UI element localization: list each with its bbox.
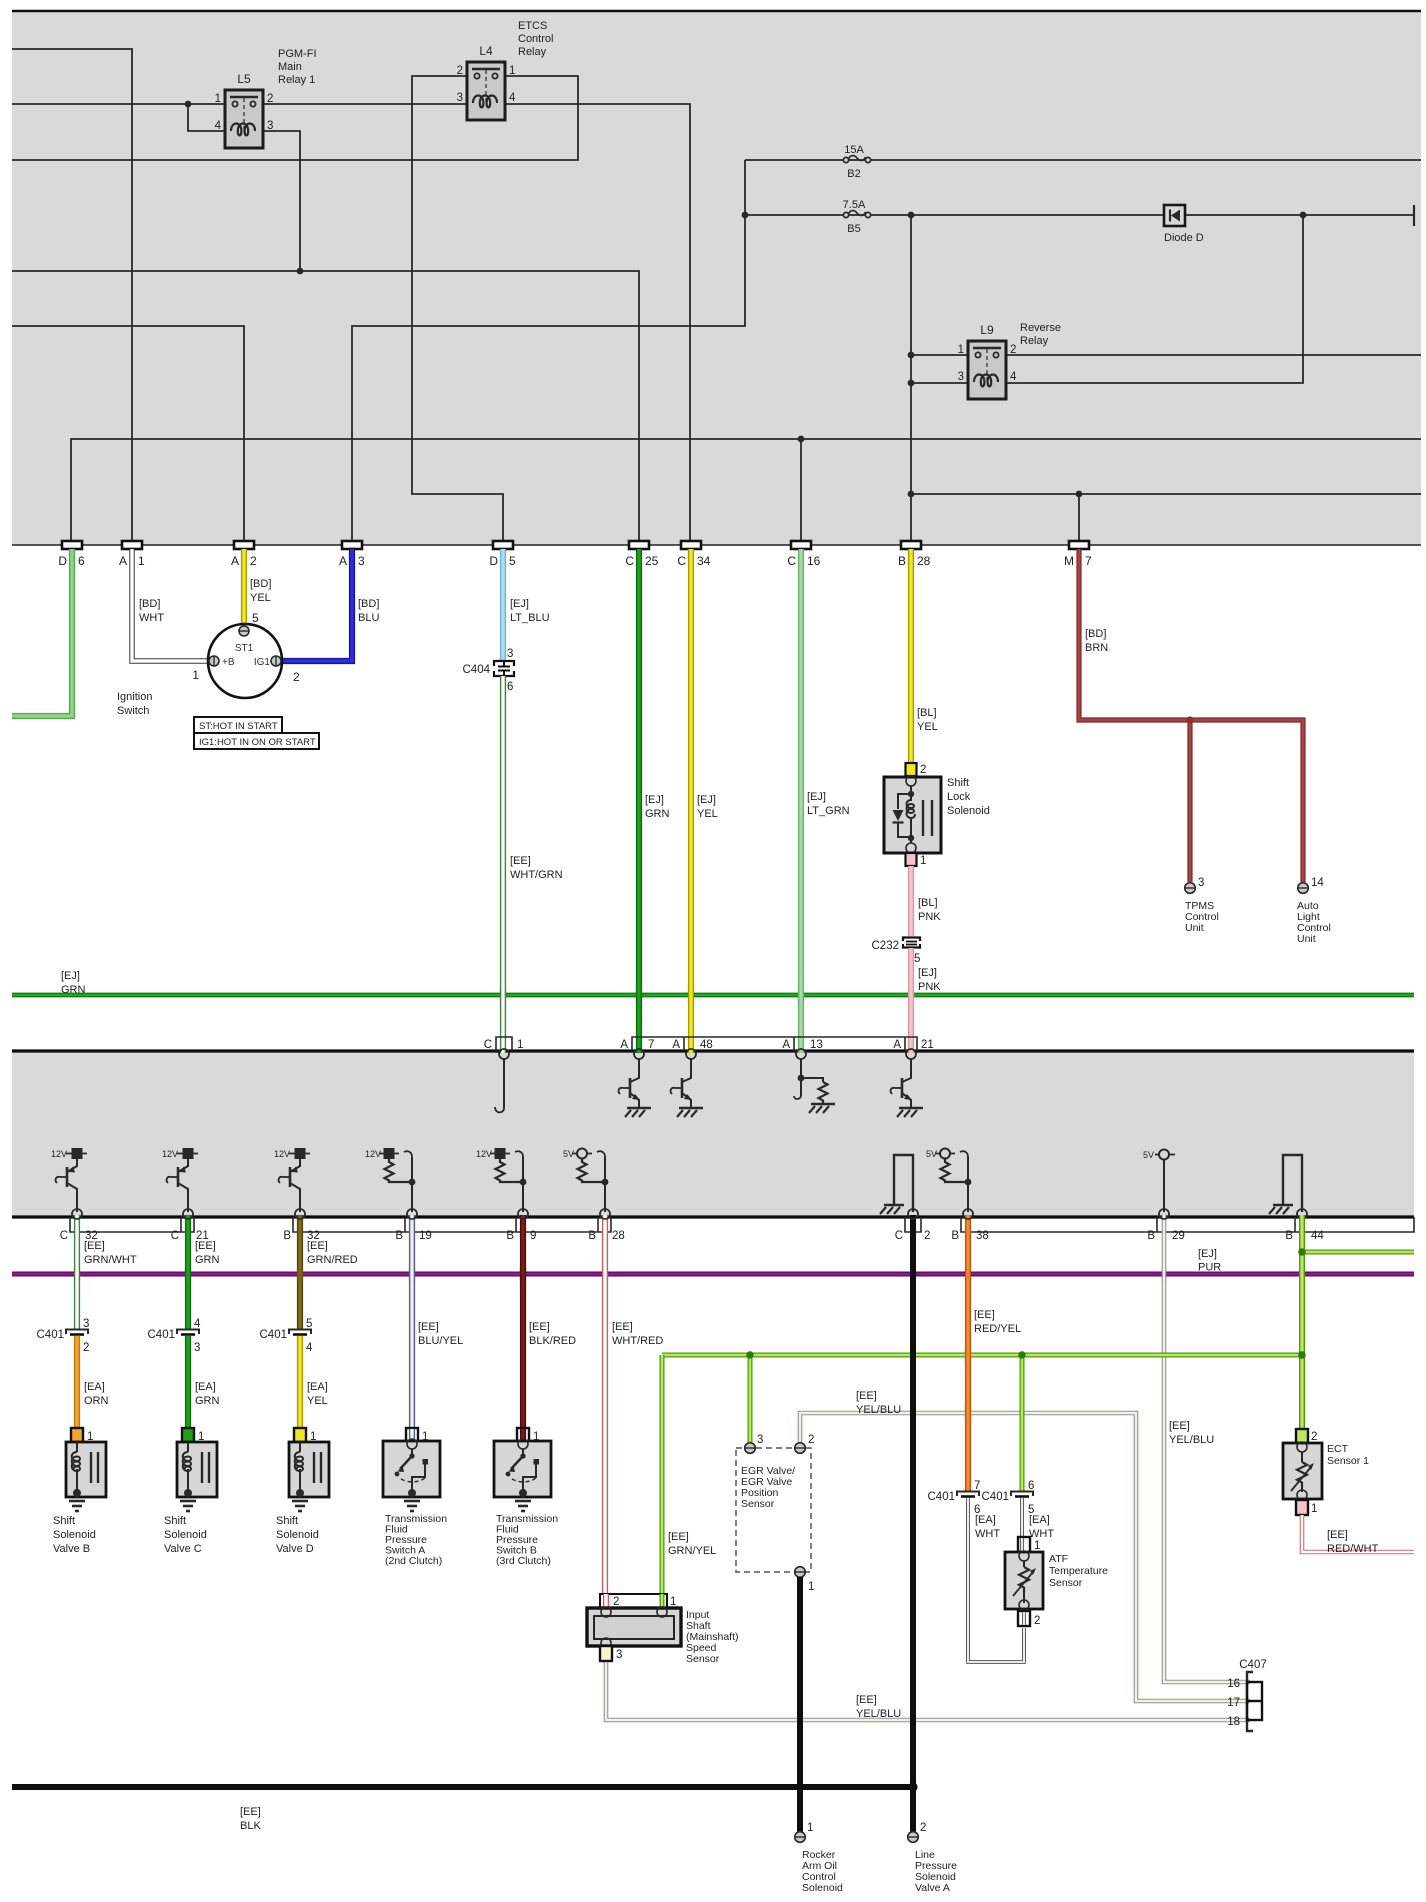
wire WHT/GRN from C404 to C1 bbox=[500, 676, 506, 1053]
svg-text:RED/YEL: RED/YEL bbox=[974, 1323, 1021, 1335]
svg-text:Shift: Shift bbox=[276, 1515, 298, 1527]
label Auto Light Control Unit bbox=[1297, 900, 1331, 945]
svg-text:C401: C401 bbox=[148, 1329, 176, 1341]
svg-text:[EE]: [EE] bbox=[612, 1321, 633, 1333]
svg-text:ECT: ECT bbox=[1327, 1443, 1349, 1455]
svg-text:3: 3 bbox=[1198, 877, 1204, 889]
wire LT_GRN crossing green bus bbox=[798, 988, 804, 1002]
label [EE] YEL/BLU (B29 wire) bbox=[1169, 1420, 1214, 1446]
junction dot lime 1022,1355 bbox=[1018, 1351, 1026, 1359]
pin circle overlay at x=188 bottom of TCM bbox=[183, 1209, 193, 1219]
wire BLU from A3 to IG1 bbox=[281, 549, 352, 661]
ground symbol at C2 bbox=[880, 1155, 913, 1214]
svg-text:A: A bbox=[119, 554, 127, 568]
ignition switch body bbox=[208, 624, 282, 698]
input shaft speed sensor pin row bbox=[600, 1594, 676, 1608]
svg-text:GRN/WHT: GRN/WHT bbox=[84, 1254, 137, 1266]
pin circle overlay at x=523 bottom of TCM bbox=[518, 1209, 528, 1219]
connector C25 (PCM) bbox=[625, 541, 658, 568]
wire stub below C1 with pigtail bbox=[503, 1059, 505, 1108]
svg-text:[BD]: [BD] bbox=[1085, 628, 1106, 640]
svg-text:1: 1 bbox=[920, 855, 926, 867]
pin circle at x=77 bottom of TCM bbox=[72, 1209, 82, 1219]
junction dot lime 750,1355 bbox=[746, 1351, 754, 1359]
wire WHT from C401-6 loop to ATF pin 2 bbox=[968, 1498, 1024, 1662]
wire y160 fuse B2 branch bbox=[745, 159, 1421, 161]
svg-text:GRN: GRN bbox=[645, 808, 670, 820]
svg-text:3: 3 bbox=[507, 648, 513, 660]
svg-text:L9: L9 bbox=[980, 323, 994, 337]
connector C401 pins 7/6 bbox=[928, 1480, 981, 1516]
svg-text:YEL: YEL bbox=[917, 721, 938, 733]
label [EE] BLK/RED bbox=[529, 1321, 576, 1347]
svg-text:[EJ]: [EJ] bbox=[510, 598, 529, 610]
svg-text:A: A bbox=[893, 1039, 901, 1051]
svg-text:ORN: ORN bbox=[84, 1395, 109, 1407]
svg-text:3: 3 bbox=[757, 1434, 763, 1446]
wire GRN/YEL down to input sensor pin 1 bbox=[660, 1355, 665, 1596]
svg-text:Diode D: Diode D bbox=[1164, 232, 1204, 244]
junction dot 745,215 bbox=[742, 212, 749, 219]
wire y160 to L4 pin1 bbox=[12, 76, 578, 160]
svg-text:2: 2 bbox=[808, 1434, 814, 1446]
svg-text:IG1: IG1 bbox=[254, 657, 271, 668]
svg-text:C: C bbox=[625, 554, 634, 568]
label [EJ] GRN (horizontal bus) bbox=[61, 970, 86, 996]
pin circle overlay at x=605 bottom of TCM bbox=[600, 1209, 610, 1219]
label [EE] BLK bbox=[240, 1806, 261, 1832]
svg-text:13: 13 bbox=[810, 1039, 823, 1051]
svg-text:[EE]: [EE] bbox=[195, 1240, 216, 1252]
connector M7 (PCM) bbox=[1064, 541, 1092, 568]
label ETCS Control Relay bbox=[518, 20, 553, 58]
wire L4 pin2 down to D5 bbox=[412, 76, 503, 541]
svg-text:15A: 15A bbox=[844, 144, 864, 156]
svg-text:7: 7 bbox=[1085, 554, 1092, 568]
wire B5 feed down to B28 bbox=[910, 215, 912, 541]
connector C1 pin circle bbox=[499, 1049, 509, 1059]
svg-text:Valve B: Valve B bbox=[53, 1543, 90, 1555]
svg-text:C232: C232 bbox=[872, 940, 900, 952]
svg-text:LT_BLU: LT_BLU bbox=[510, 612, 550, 624]
svg-text:Relay: Relay bbox=[1020, 335, 1049, 347]
svg-text:1: 1 bbox=[808, 1581, 814, 1593]
wire BRN branch to TPMS bbox=[1187, 720, 1192, 882]
svg-text:C: C bbox=[895, 1230, 903, 1242]
wire LT_BLU from D5 to C404 bbox=[500, 549, 506, 661]
svg-text:[EE]: [EE] bbox=[856, 1694, 877, 1706]
shift lock solenoid pin 1 box bbox=[906, 853, 927, 867]
wire BLK ground bus bbox=[12, 1784, 913, 1790]
svg-text:Switch: Switch bbox=[117, 705, 149, 717]
svg-text:[EJ]: [EJ] bbox=[1198, 1248, 1217, 1260]
svg-text:3: 3 bbox=[267, 120, 273, 132]
svg-text:YEL: YEL bbox=[307, 1395, 328, 1407]
wire WHT/RED stub into input sensor pin 2 bbox=[603, 1594, 609, 1608]
svg-text:1: 1 bbox=[517, 1039, 523, 1051]
terminal 3 TPMS bbox=[1185, 877, 1205, 893]
svg-text:[EA]: [EA] bbox=[1029, 1514, 1050, 1526]
svg-text:M: M bbox=[1064, 554, 1074, 568]
svg-text:ST:HOT IN START: ST:HOT IN START bbox=[199, 721, 278, 732]
wire fuse feed down to A3 bbox=[352, 160, 745, 541]
pin circle at x=300 bottom of TCM bbox=[295, 1209, 305, 1219]
svg-text:WHT/GRN: WHT/GRN bbox=[510, 869, 563, 881]
wire BLK redrawn over lower YEL/BLU crossing bbox=[910, 1712, 916, 1728]
wire M7 drop from y494 bus bbox=[1078, 494, 1080, 541]
label Rocker Arm Oil Control Solenoid bbox=[802, 1849, 843, 1894]
connector A1 (PCM) bbox=[119, 541, 145, 568]
ATF temperature sensor body bbox=[1005, 1551, 1043, 1610]
svg-text:[EE]: [EE] bbox=[240, 1806, 261, 1818]
svg-text:1: 1 bbox=[958, 344, 964, 356]
label [EA] WHT (right) bbox=[1029, 1514, 1054, 1540]
svg-text:YEL: YEL bbox=[250, 592, 271, 604]
svg-text:L5: L5 bbox=[237, 72, 251, 86]
junction dot lime 1302,1355 bbox=[1298, 1351, 1306, 1359]
wire GRN/YEL down to C401 pin 6 bbox=[1020, 1355, 1025, 1491]
label [EA] GRN bbox=[195, 1381, 220, 1407]
5V pull-up resistor at B28 bbox=[563, 1149, 608, 1213]
svg-text:7: 7 bbox=[648, 1039, 654, 1051]
fuse B2 15A bbox=[843, 144, 870, 180]
12V driver transistor at C32 bbox=[51, 1148, 87, 1212]
wire L5 pin1 junction to pin 4 bbox=[188, 104, 225, 131]
svg-text:7.5A: 7.5A bbox=[843, 199, 866, 211]
label [EJ] PUR bbox=[1198, 1248, 1221, 1274]
svg-text:2: 2 bbox=[920, 1822, 926, 1834]
junction dot 911,215 bbox=[908, 212, 915, 219]
junction dot at 300,271 bbox=[297, 268, 304, 275]
svg-text:6: 6 bbox=[1028, 1480, 1034, 1492]
EGR valve dashed box bbox=[736, 1448, 811, 1572]
connector strip B38-B29-B44 bbox=[951, 1217, 1414, 1242]
svg-text:Unit: Unit bbox=[1185, 922, 1204, 934]
wire GRN/YEL stub into input sensor pin 1 bbox=[660, 1594, 665, 1608]
label [BL] PNK bbox=[918, 897, 941, 923]
wire to reverse relay pin 3 bbox=[911, 382, 968, 384]
wire WHT from C401-5 to ATF pin 1 bbox=[1020, 1498, 1024, 1538]
label [EA] WHT (left) bbox=[975, 1514, 1000, 1540]
wire into L5 pin 1 bbox=[12, 103, 225, 105]
wire PNK crossing green bus bbox=[908, 988, 914, 1002]
terminal 2 Line Pressure Solenoid Valve A bbox=[908, 1822, 927, 1842]
connector strip B32-B19-B9-B28 bbox=[283, 1217, 624, 1242]
connector A13 pin circle bbox=[796, 1049, 806, 1059]
svg-text:12V: 12V bbox=[476, 1149, 492, 1159]
relay L5 (PGM-FI Main Relay 1) bbox=[215, 72, 274, 148]
junction dot lime 1302,1252 bbox=[1298, 1248, 1306, 1256]
label [EJ] LT_GRN bbox=[807, 791, 850, 817]
wire YEL from C34 to A48 bbox=[688, 549, 694, 1053]
svg-text:+B: +B bbox=[222, 657, 235, 668]
connector A7 pin circle bbox=[634, 1049, 644, 1059]
svg-text:Shift: Shift bbox=[164, 1515, 186, 1527]
svg-text:[EA]: [EA] bbox=[307, 1381, 328, 1393]
svg-text:2: 2 bbox=[250, 554, 257, 568]
pin circle overlay at x=913 bottom of TCM bbox=[908, 1209, 918, 1219]
svg-text:BLU: BLU bbox=[358, 612, 379, 624]
svg-text:C401: C401 bbox=[982, 1491, 1010, 1503]
shift lock solenoid pin 2 box bbox=[906, 763, 927, 776]
svg-text:17: 17 bbox=[1227, 1697, 1240, 1709]
wire BLK redrawn over lime bus crossing bbox=[910, 1347, 916, 1363]
shift lock solenoid body bbox=[884, 776, 941, 853]
relay L4 (ETCS Control Relay) bbox=[457, 44, 516, 120]
svg-text:2: 2 bbox=[1034, 1615, 1040, 1627]
wire GRN from C25 to A7 bbox=[636, 549, 642, 1053]
svg-text:[EJ]: [EJ] bbox=[61, 970, 80, 982]
connector C1 (TCM) box bbox=[484, 1037, 524, 1051]
wire YEL C34 crossing green bus bbox=[688, 988, 694, 1002]
ground symbol at B44 bbox=[1269, 1155, 1302, 1214]
svg-text:PNK: PNK bbox=[918, 981, 941, 993]
pin circle at x=412 bottom of TCM bbox=[407, 1209, 417, 1219]
svg-text:Shift: Shift bbox=[947, 777, 969, 789]
svg-text:A: A bbox=[672, 1039, 680, 1051]
svg-text:2: 2 bbox=[1010, 344, 1016, 356]
transistor driver at A21 bbox=[891, 1059, 923, 1117]
wire GRN C25 crossing green bus bbox=[636, 988, 642, 1002]
svg-text:WHT: WHT bbox=[139, 612, 164, 624]
svg-text:ETCS: ETCS bbox=[518, 20, 547, 32]
TCM internal area (second gray box) bbox=[12, 1051, 1414, 1217]
svg-text:C: C bbox=[787, 554, 796, 568]
svg-text:6: 6 bbox=[78, 554, 85, 568]
label [EE] GRN (C21 wire) bbox=[195, 1240, 220, 1266]
wire y326 to A2 bbox=[12, 326, 244, 541]
svg-text:C401: C401 bbox=[37, 1329, 65, 1341]
wire YEL from B28 to shift lock solenoid bbox=[908, 549, 914, 763]
wire WHT/GRN crossing green bus bbox=[500, 988, 506, 1002]
wire BLU/YEL from B19 to switch A bbox=[409, 1215, 415, 1440]
svg-text:YEL/BLU: YEL/BLU bbox=[856, 1708, 901, 1720]
svg-text:19: 19 bbox=[419, 1230, 432, 1242]
svg-text:LT_GRN: LT_GRN bbox=[807, 805, 850, 817]
svg-text:28: 28 bbox=[612, 1230, 625, 1242]
svg-text:C: C bbox=[60, 1230, 68, 1242]
input shaft speed sensor body bbox=[587, 1607, 681, 1648]
wire crossing purple at x=188 bbox=[185, 1268, 191, 1281]
connector C401 pins 5/4 bbox=[260, 1318, 314, 1354]
svg-text:1: 1 bbox=[509, 65, 515, 77]
terminal IG1 bbox=[254, 656, 281, 668]
PCM internal area (top gray box) bbox=[12, 11, 1421, 545]
svg-text:A: A bbox=[620, 1039, 628, 1051]
12V driver transistor at C21 bbox=[162, 1148, 198, 1212]
svg-text:3: 3 bbox=[194, 1342, 200, 1354]
svg-text:D: D bbox=[489, 554, 498, 568]
wire C16 drop from y439 bus bbox=[800, 439, 802, 541]
svg-text:Solenoid: Solenoid bbox=[53, 1529, 96, 1541]
svg-text:18: 18 bbox=[1227, 1716, 1240, 1728]
svg-text:12V: 12V bbox=[51, 1149, 67, 1159]
label [EJ] GRN (C25 wire) bbox=[645, 794, 670, 820]
svg-text:BLK: BLK bbox=[240, 1820, 261, 1832]
label [EJ] YEL (C34 wire) bbox=[697, 794, 718, 820]
connector C401 pins 6/5 bbox=[982, 1480, 1035, 1516]
svg-text:Shift: Shift bbox=[53, 1515, 75, 1527]
wire GRN horizontal bus bbox=[12, 993, 1414, 998]
wire BLK crossing purple bbox=[910, 1268, 916, 1281]
svg-text:PNK: PNK bbox=[918, 911, 941, 923]
svg-text:12V: 12V bbox=[365, 1149, 381, 1159]
svg-text:Relay: Relay bbox=[518, 46, 547, 58]
svg-text:14: 14 bbox=[1311, 877, 1324, 889]
wire BLK from EGR pin 1 down bbox=[797, 1577, 803, 1832]
svg-text:L4: L4 bbox=[479, 44, 493, 58]
connector C16 (PCM) bbox=[787, 541, 820, 568]
svg-text:GRN: GRN bbox=[195, 1254, 220, 1266]
transistor driver at A48 bbox=[671, 1059, 703, 1117]
wire RED/YEL redrawn over lime bus crossing bbox=[965, 1347, 971, 1363]
wire ORN from C401 to valve B bbox=[74, 1336, 80, 1440]
svg-text:C401: C401 bbox=[928, 1491, 956, 1503]
pin circle overlay C1 bbox=[499, 1049, 509, 1059]
label [EE] YEL/BLU (EGR wire) bbox=[856, 1390, 901, 1416]
wire crossing purple at x=968 bbox=[965, 1268, 971, 1281]
5V pull-up resistor at B38 bbox=[926, 1149, 971, 1213]
svg-text:RED/WHT: RED/WHT bbox=[1327, 1543, 1379, 1555]
junction dot 1302,215 bbox=[1300, 212, 1307, 219]
svg-text:21: 21 bbox=[921, 1039, 934, 1051]
label PGM-FI Main Relay 1 bbox=[278, 48, 317, 86]
svg-text:5: 5 bbox=[509, 554, 516, 568]
svg-text:Control: Control bbox=[518, 33, 553, 45]
5V source at B29 bbox=[1143, 1150, 1175, 1213]
shift solenoid valve D bbox=[276, 1428, 329, 1555]
label [EE] WHT/RED bbox=[612, 1321, 663, 1347]
wire BLK redrawn over YEL/BLU crossing bbox=[910, 1405, 916, 1421]
label [EJ] LT_BLU bbox=[510, 598, 550, 624]
connector D6 (PCM) bbox=[58, 541, 85, 568]
svg-text:3: 3 bbox=[358, 554, 365, 568]
connector strip C32-C21 bbox=[60, 1217, 209, 1242]
pin circle overlay A48 bbox=[686, 1049, 696, 1059]
label [EA] YEL bbox=[307, 1381, 328, 1407]
svg-text:Sensor: Sensor bbox=[1049, 1577, 1083, 1589]
svg-text:B2: B2 bbox=[847, 168, 860, 180]
connector C2 box bbox=[895, 1217, 931, 1242]
svg-text:WHT: WHT bbox=[1029, 1528, 1054, 1540]
wire BLK from C2 down bbox=[910, 1215, 916, 1786]
label TPMS Control Unit bbox=[1185, 900, 1219, 934]
svg-text:2: 2 bbox=[924, 1230, 930, 1242]
ATF sensor pin 1 box bbox=[1018, 1537, 1040, 1552]
svg-text:B: B bbox=[1147, 1230, 1155, 1242]
wire y494 bus bbox=[911, 493, 1421, 495]
svg-text:34: 34 bbox=[697, 554, 711, 568]
svg-text:3: 3 bbox=[83, 1318, 89, 1330]
svg-text:1: 1 bbox=[1311, 1503, 1317, 1515]
connector A2 (PCM) bbox=[231, 541, 257, 568]
wire end stub at right of y215 bbox=[1413, 205, 1415, 226]
wire crossing purple at x=77 bbox=[74, 1268, 80, 1281]
svg-text:C: C bbox=[171, 1230, 179, 1242]
label [EA] ORN bbox=[84, 1381, 109, 1407]
wire GRN from C21 to C401 bbox=[185, 1215, 191, 1329]
label EGR Valve Position Sensor bbox=[741, 1465, 795, 1510]
wire PUR horizontal bbox=[12, 1272, 1414, 1277]
svg-text:[EE]: [EE] bbox=[510, 855, 531, 867]
svg-text:(3rd Clutch): (3rd Clutch) bbox=[496, 1555, 551, 1567]
svg-text:[EE]: [EE] bbox=[1169, 1420, 1190, 1432]
svg-text:[EE]: [EE] bbox=[974, 1309, 995, 1321]
svg-text:B: B bbox=[951, 1230, 959, 1242]
svg-text:44: 44 bbox=[1311, 1230, 1324, 1242]
svg-text:Unit: Unit bbox=[1297, 933, 1316, 945]
svg-text:B5: B5 bbox=[847, 223, 860, 235]
label Reverse Relay bbox=[1020, 322, 1061, 347]
svg-text:1: 1 bbox=[192, 668, 199, 682]
wire crossing purple at x=412 bbox=[409, 1268, 415, 1281]
wire GRN from D6 to left edge bbox=[12, 549, 72, 716]
svg-text:Relay 1: Relay 1 bbox=[278, 74, 315, 86]
EGR terminal 3 bbox=[745, 1434, 764, 1453]
label Shift Lock Solenoid bbox=[947, 777, 990, 817]
pin circle at x=605 bottom of TCM bbox=[600, 1209, 610, 1219]
pin circle at x=523 bottom of TCM bbox=[518, 1209, 528, 1219]
wire GRN/YEL down to EGR pin 3 bbox=[748, 1355, 753, 1442]
svg-text:[EJ]: [EJ] bbox=[645, 794, 664, 806]
wire crossing purple at x=1164 bbox=[1162, 1268, 1167, 1281]
svg-text:[EJ]: [EJ] bbox=[807, 791, 826, 803]
EGR terminal 1 bbox=[795, 1567, 815, 1593]
svg-text:B: B bbox=[898, 554, 906, 568]
label [BD] BRN bbox=[1085, 628, 1108, 654]
wire GRN from C401 to valve C bbox=[185, 1336, 191, 1440]
label [EE] WHT/GRN bbox=[510, 855, 563, 881]
wire GRN/YEL branch to right edge bbox=[1302, 1250, 1414, 1255]
svg-text:BRN: BRN bbox=[1085, 642, 1108, 654]
svg-text:ST1: ST1 bbox=[235, 643, 254, 654]
junction dot 911,355 bbox=[908, 352, 915, 359]
12V pull-up resistor at B19 bbox=[365, 1148, 415, 1212]
terminal 1 Rocker Arm Oil Control Solenoid bbox=[795, 1822, 814, 1842]
note box ST:HOT IN START bbox=[194, 717, 282, 733]
wire y439 bus to D6 bbox=[71, 439, 1421, 541]
label Input Shaft (Mainshaft) Speed Sensor bbox=[686, 1609, 739, 1665]
svg-text:Valve A: Valve A bbox=[915, 1882, 950, 1894]
svg-text:PGM-FI: PGM-FI bbox=[278, 48, 317, 60]
wire WHT from A1 to ignition switch +B bbox=[132, 549, 209, 661]
junction dot 801,439 bbox=[798, 436, 805, 443]
12V driver transistor at B32 bbox=[274, 1148, 310, 1212]
svg-text:[EA]: [EA] bbox=[195, 1381, 216, 1393]
svg-text:5: 5 bbox=[914, 953, 920, 965]
wire BLK from C2 to terminal 2 bbox=[910, 1787, 916, 1832]
svg-text:WHT/RED: WHT/RED bbox=[612, 1335, 663, 1347]
pin circle at x=188 bottom of TCM bbox=[183, 1209, 193, 1219]
pin circle overlay at x=968 bottom of TCM bbox=[963, 1209, 973, 1219]
wire YEL/BLU from EGR pin 2 to C407 pin 17 bbox=[800, 1413, 1250, 1701]
pin circle at x=913 bottom of TCM bbox=[908, 1209, 918, 1219]
svg-text:[EJ]: [EJ] bbox=[697, 794, 716, 806]
wire YEL from C401 to valve D bbox=[297, 1336, 303, 1440]
junction dot 1079,494 bbox=[1076, 491, 1083, 498]
svg-text:2: 2 bbox=[1311, 1431, 1317, 1443]
connector C401 pins 4/3 bbox=[148, 1318, 202, 1354]
wire WHT/RED from B28 to input shaft sensor bbox=[602, 1215, 608, 1596]
label [BD] YEL bbox=[250, 578, 271, 604]
svg-text:B: B bbox=[588, 1230, 596, 1242]
shift solenoid valve B bbox=[53, 1428, 106, 1555]
wire crossing purple at x=523 bbox=[520, 1268, 526, 1281]
svg-text:1: 1 bbox=[1034, 1540, 1040, 1552]
svg-text:4: 4 bbox=[306, 1342, 313, 1354]
wire L5 pin2 to L4 pin3 bbox=[263, 103, 467, 105]
wire GRN/WHT from C32 to C401 bbox=[74, 1215, 80, 1329]
